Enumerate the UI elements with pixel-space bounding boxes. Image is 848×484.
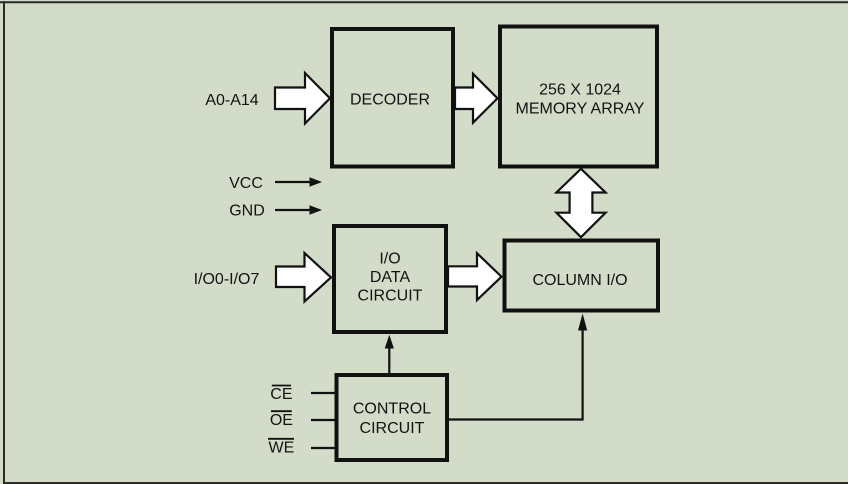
svg-text:CIRCUIT: CIRCUIT — [358, 288, 423, 305]
double-headed block arrow MEMORY ARRAY to COLUMN I/O — [556, 169, 605, 237]
svg-text:I/O0-I/O7: I/O0-I/O7 — [194, 271, 260, 288]
wire OE to CONTROL CIRCUIT — [311, 419, 335, 421]
svg-text:I/O: I/O — [379, 251, 400, 268]
block I/O DATA CIRCUIT — [334, 226, 446, 332]
svg-text:CONTROL: CONTROL — [353, 401, 431, 418]
svg-text:A0-A14: A0-A14 — [205, 92, 258, 109]
block DECODER — [332, 29, 453, 167]
svg-text:WE: WE — [269, 440, 295, 457]
svg-text:CE: CE — [270, 386, 292, 403]
svg-text:COLUMN I/O: COLUMN I/O — [532, 272, 627, 289]
svg-text:256 X 1024: 256 X 1024 — [539, 82, 621, 99]
block arrow A0-A14 to DECODER — [275, 73, 330, 124]
wire WE to CONTROL CIRCUIT — [311, 447, 335, 449]
block arrow I/O0-I/O7 to I/O DATA CIRCUIT — [276, 253, 331, 302]
svg-text:OE: OE — [270, 412, 293, 429]
svg-text:VCC: VCC — [229, 175, 263, 192]
wire CE to CONTROL CIRCUIT — [311, 392, 335, 394]
block arrow DECODER to MEMORY ARRAY — [455, 74, 498, 123]
label OE with overline — [270, 411, 293, 429]
label WE with overline — [268, 439, 294, 457]
svg-text:DECODER: DECODER — [350, 91, 430, 108]
block COLUMN I/O — [505, 241, 659, 311]
thin arrow GND — [275, 205, 322, 215]
block CONTROL CIRCUIT — [337, 375, 448, 460]
block 256 X 1024 MEMORY ARRAY — [500, 27, 657, 167]
label CE with overline — [270, 386, 292, 404]
thin arrow VCC — [275, 177, 322, 187]
block arrow I/O DATA CIRCUIT to COLUMN I/O — [448, 253, 502, 300]
svg-text:GND: GND — [229, 203, 265, 220]
wire CONTROL CIRCUIT to COLUMN I/O with arrowhead — [449, 314, 587, 420]
svg-text:CIRCUIT: CIRCUIT — [360, 420, 425, 437]
svg-text:DATA: DATA — [370, 269, 411, 286]
svg-text:MEMORY ARRAY: MEMORY ARRAY — [516, 101, 645, 118]
thin arrow CONTROL CIRCUIT to I/O DATA CIRCUIT — [385, 335, 394, 374]
